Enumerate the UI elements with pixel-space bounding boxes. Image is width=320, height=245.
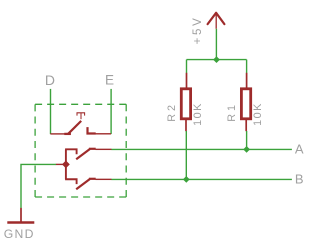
wire net B (111, 178, 292, 180)
wire top rail (187, 59, 247, 61)
svg-text:R2: R2 (166, 102, 178, 122)
svg-text:10K: 10K (252, 102, 264, 126)
switch contact A : throw contact (89, 148, 96, 150)
pushbutton S1 fixed contact (64, 133, 71, 135)
dashed outline box of switch S1 (35, 104, 126, 197)
wire rail to R2 (186, 60, 188, 73)
svg-text:E: E (105, 73, 114, 88)
junction +5V rail (214, 57, 220, 63)
switch contact A : pin (96, 148, 112, 150)
pushbutton S1 top contact D-E : left pin (50, 133, 64, 135)
switch pole pin (56, 163, 66, 165)
svg-text:GND: GND (4, 227, 35, 241)
svg-text:A: A (295, 141, 304, 156)
switch pole junction (63, 161, 70, 168)
gnd symbol bar (7, 221, 34, 224)
wire rail to R1 (246, 60, 248, 73)
svg-text:D: D (45, 72, 55, 88)
switch contact B : lever (76, 179, 90, 189)
switch contact B : pole bracket (65, 179, 77, 184)
wire net A (111, 148, 292, 150)
junction on net A (244, 147, 250, 153)
switch contact A : pole bracket (65, 149, 77, 154)
pushbutton S1 lever (68, 121, 81, 134)
resistor R1 (241, 73, 250, 131)
svg-text:R1: R1 (226, 102, 238, 122)
wire R2 to net B (185, 131, 187, 179)
switch contact B : pin (96, 178, 112, 180)
pushbutton S1 right pin (96, 133, 112, 135)
switch contact A : lever (76, 149, 90, 159)
svg-text:10K: 10K (192, 102, 204, 126)
wire net D (50, 89, 52, 134)
wire +5V shaft (215, 29, 217, 60)
resistor R2 (181, 73, 190, 131)
gnd lead (20, 208, 22, 223)
switch contact B : throw contact (89, 178, 96, 180)
switch pole line (65, 149, 67, 179)
wire pole to GND (21, 164, 56, 208)
supply +5V symbol (208, 13, 225, 29)
wire R1 to net A (246, 131, 248, 149)
pushbutton S1 actuator T (77, 113, 85, 119)
svg-text:+5V: +5V (192, 16, 204, 45)
svg-text:B: B (295, 171, 304, 186)
wire net E (110, 89, 112, 134)
junction on net B (183, 177, 189, 183)
pushbutton S1 right contact (88, 127, 96, 133)
